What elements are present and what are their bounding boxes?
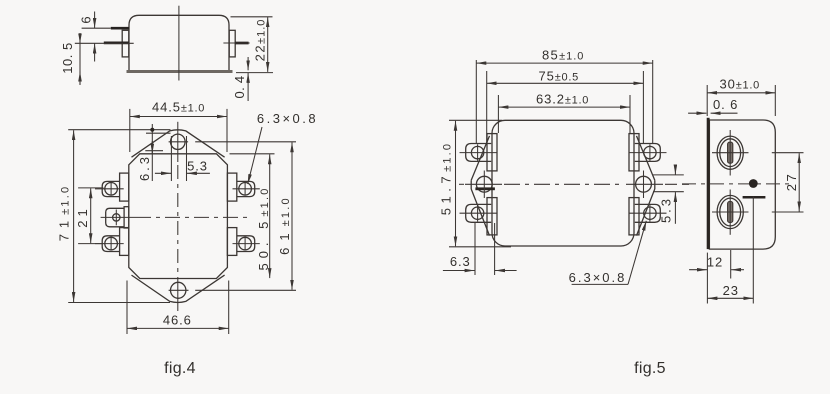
dimension 21 line [90, 188, 92, 243]
dimension 5.3 fig5 ext bottom [653, 191, 684, 193]
svg-text:fig.5: fig.5 [634, 360, 666, 377]
fig4 side pin extension line top [82, 27, 111, 29]
fig4 terminal L2 cross v [115, 210, 117, 226]
dimension 10.5 arrow bottom [79, 72, 81, 85]
fig5 right ear chamfer top [637, 136, 655, 180]
fig5 terminal BR cross h [629, 212, 667, 214]
dimension 51.7 ext top [449, 119, 502, 121]
dimension 63.2 ext right [629, 95, 631, 133]
dimension 6.3 fig5 ext left [474, 223, 476, 275]
fig4 side left terminal plate [122, 30, 129, 57]
dimension 23 ext right [752, 197, 754, 304]
fig4 terminal R1 screw [239, 183, 252, 196]
fig5 horizontal centerline right [665, 183, 689, 185]
dimension 23 line [707, 297, 753, 299]
svg-text:fig.4: fig.4 [164, 360, 196, 377]
fig4 vertical centerline top solid [177, 122, 179, 162]
svg-text:51.7±1.0: 51.7±1.0 [439, 142, 454, 215]
fig5 left ear edge [470, 180, 472, 189]
fig5 terminal BR tab [635, 204, 661, 222]
fig4 terminal L3 screw [105, 237, 118, 250]
fig4 terminal R1 plate [227, 173, 236, 201]
fig5 terminal TR cross h [629, 152, 667, 154]
dimension 51.7 ext bottom [449, 246, 511, 248]
svg-text:75±0.5: 75±0.5 [539, 69, 579, 84]
fig5 terminal TR plate [629, 134, 639, 171]
fig5 terminal BL tab [466, 204, 492, 222]
fig4 side right pin thin line [223, 42, 249, 44]
dimension 23 ext left [706, 253, 708, 304]
fig4 side right terminal plate [229, 30, 235, 57]
fig4 side view base plate [127, 70, 233, 73]
dimension 0.4 arrow bottom [247, 73, 249, 101]
fig4 terminal R1 cross h [233, 188, 260, 190]
fig4 terminal R1 cross v [244, 182, 246, 196]
dimension 27 ext bottom [772, 211, 804, 213]
fig5 terminal BR cross v [649, 205, 651, 222]
dimension 6.3 ext mid [145, 150, 163, 152]
fig4 side right pin [235, 42, 249, 45]
dimension 85 line [476, 62, 652, 64]
fig4 top mounting ear [132, 130, 225, 157]
dimension 63.2 line [498, 106, 630, 108]
end view bottom terminal slot [728, 202, 733, 223]
dimension 44.5 ext right [226, 109, 228, 152]
fig4 terminal L2 cross h [101, 216, 136, 218]
fig4 terminal R3 tab [237, 236, 255, 252]
dimension 27 ext top [772, 152, 804, 154]
dimension 5.3 ext left [170, 136, 172, 181]
dimension 61 ext top [195, 141, 296, 143]
label 6.3x0.8 fig5 leader [628, 221, 646, 285]
svg-text:44.5±1.0: 44.5±1.0 [152, 100, 205, 115]
end view mounting plate edge [707, 118, 710, 249]
svg-text:12: 12 [707, 254, 723, 269]
dimension 30 ext left [706, 85, 708, 116]
fig5 terminal TL cross h [460, 152, 498, 154]
fig4 terminal L3 tab [102, 236, 119, 252]
end view bottom terminal outer [717, 195, 743, 228]
fig4 bottom ear hole [171, 282, 186, 298]
dimension 12 arrow left [689, 269, 707, 271]
svg-text:30±1.0: 30±1.0 [720, 77, 760, 92]
fig4 top ear hole [171, 134, 186, 149]
svg-text:85±1.0: 85±1.0 [542, 47, 584, 62]
fig5 left ear chamfer bottom [471, 189, 489, 236]
dimension 44.5 ext left [129, 109, 131, 152]
dimension 75 line [487, 82, 644, 84]
dimension 71 ext top [68, 129, 170, 131]
fig5 terminal TR tab [635, 144, 661, 162]
dimension 6.3 line [151, 124, 153, 181]
label 6.3x0.8 fig4 leader [248, 127, 262, 184]
svg-text:5.3: 5.3 [659, 196, 674, 223]
fig4 side view body [129, 15, 229, 70]
svg-text:71±1.0: 71±1.0 [57, 185, 72, 242]
dimension 6 arrow top [94, 12, 96, 29]
fig4 terminal L2 tab [106, 208, 124, 227]
end view top terminal cross h [712, 152, 749, 154]
end view ground dot [749, 179, 758, 188]
fig4 terminal L1 cross v [110, 182, 112, 196]
fig5 terminal TL plate [487, 134, 497, 171]
svg-text:23: 23 [723, 283, 739, 298]
end view body [709, 120, 775, 249]
svg-text:22±1.0: 22±1.0 [253, 19, 268, 62]
fig4 terminal R3 screw [239, 237, 252, 250]
fig4 terminal L1 screw [105, 183, 118, 196]
dimension 61 line [291, 142, 293, 289]
dimension 30 ext right [774, 85, 776, 116]
dimension 85 ext left [475, 60, 477, 143]
dimension 5.3 fig5 ext top [653, 174, 684, 176]
fig4 vertical centerline bottom solid [177, 277, 179, 311]
fig5 terminal TR cross v [649, 144, 651, 161]
dimension 21 ext bottom [78, 243, 103, 245]
svg-text:6.3: 6.3 [450, 254, 471, 269]
fig4 side view vertical centerline [178, 6, 180, 81]
dimension 5.3 ext right [186, 136, 188, 181]
fig4 terminal L1 tab [102, 181, 119, 196]
dimension 71 ext bottom [68, 302, 170, 304]
dimension 63.2 ext left [497, 95, 499, 133]
dimension 75 ext right [642, 71, 644, 143]
fig5 terminal BR screw [644, 207, 656, 219]
fig4 terminal R1 tab [237, 181, 255, 196]
dimension 50.5 line [269, 154, 271, 278]
fig4 side top-left pin [111, 27, 129, 30]
fig4 bottom mounting ear [132, 275, 225, 302]
dimension 5.3 arrow left [155, 172, 171, 174]
fig4 terminal L3 plate [120, 228, 129, 256]
fig4 terminal L2 plate [124, 207, 129, 228]
dimension 0.6 arrow left [688, 112, 706, 114]
fig5 body [492, 120, 634, 246]
fig5 left ear cross solid [465, 183, 502, 185]
fig5 terminal BL screw [471, 207, 483, 219]
end view centerline [682, 183, 789, 185]
dimension 0.6 line right [711, 112, 738, 114]
end view ground bar [743, 196, 766, 199]
dimension 75 ext left [486, 71, 488, 143]
dimension 51.7 line [455, 121, 457, 247]
fig5 right ear edge [654, 180, 656, 189]
svg-text:0. 6: 0. 6 [713, 97, 738, 112]
svg-text:21: 21 [75, 205, 90, 227]
svg-text:5.3: 5.3 [187, 158, 208, 173]
dimension 50.5 ext top [230, 153, 275, 155]
dimension 12 arrow right [731, 269, 744, 271]
fig4 terminal L3 cross v [110, 237, 112, 251]
dimension 10.5 line [79, 33, 81, 85]
dimension 44.5 line [130, 116, 227, 118]
svg-text:46.6: 46.6 [163, 313, 192, 328]
dimension 0.4 arrow top [247, 57, 249, 70]
fig4 terminal R3 cross v [244, 237, 246, 251]
fig4 terminal R3 plate [227, 228, 236, 256]
end view top terminal cross v [729, 130, 731, 176]
dimension 46.6 line [127, 327, 229, 329]
fig5 left ear vline [483, 171, 485, 199]
svg-text:10. 5: 10. 5 [60, 42, 75, 73]
dimension 22 bottom extension [236, 72, 273, 74]
fig5 horizontal centerline mid [504, 183, 624, 185]
fig4 side bottom-left pin [104, 42, 129, 45]
end view bottom terminal cross v [729, 190, 731, 235]
svg-text:6.3: 6.3 [137, 154, 152, 181]
fig4 bottom ear hole cross [169, 289, 189, 291]
dimension 22 line [267, 17, 269, 72]
dimension 6.3 arrow [151, 141, 153, 154]
dimension 5.3 fig5 arrow top [674, 167, 676, 175]
svg-text:6.3×0.8: 6.3×0.8 [569, 270, 627, 285]
fig4 terminal R3 cross h [233, 243, 260, 245]
fig5 terminal TL screw [471, 146, 483, 158]
dimension 21 ext top [78, 187, 103, 189]
dimension 46.6 ext right [228, 281, 230, 335]
fig4 horizontal centerline [136, 216, 250, 218]
end view bottom terminal inner [720, 198, 741, 226]
svg-text:0. 4: 0. 4 [232, 76, 247, 99]
end view top terminal outer [717, 136, 743, 169]
end view bottom terminal cross h [712, 211, 749, 213]
dimension 6.3 fig5 ext right [494, 223, 496, 275]
fig5 right ear cross solid [626, 183, 663, 185]
dimension 10.5 arrow top [79, 33, 81, 43]
fig5 right ear vline [643, 171, 645, 199]
svg-text:50. 5±1.0: 50. 5±1.0 [256, 186, 271, 270]
dimension 85 ext right [652, 60, 654, 143]
fig5 terminal TL tab [466, 144, 492, 162]
fig5 right ear hole [636, 176, 652, 192]
fig5 terminal BL plate [487, 198, 497, 235]
fig4 terminal L1 cross h [95, 188, 124, 190]
dimension 61 ext bottom [195, 289, 296, 291]
dimension 12 ext [730, 250, 732, 279]
fig4 side pin extension line bottom [75, 42, 134, 44]
svg-text:61±1.0: 61±1.0 [277, 196, 292, 255]
svg-text:6: 6 [79, 15, 94, 23]
fig4 vertical centerline [177, 165, 179, 274]
end view top terminal slot [728, 142, 733, 163]
dimension 46.6 ext left [126, 281, 128, 335]
fig5 terminal BL cross v [477, 205, 479, 222]
fig5 left ear slot bar [475, 187, 495, 190]
fig5 terminal BL cross h [460, 212, 498, 214]
fig5 terminal TR screw [644, 146, 656, 158]
dimension 22 top extension [231, 16, 273, 18]
fig5 horizontal centerline left [459, 183, 464, 185]
fig4 terminal L2 screw [113, 214, 120, 221]
svg-text:6.3×0.8: 6.3×0.8 [257, 111, 318, 126]
dimension 5.3 fig5 arrow bottom [674, 192, 676, 224]
end view top terminal inner [720, 139, 741, 167]
dimension 6.3 fig5 arrow right [495, 270, 517, 272]
fig5 terminal TL cross v [477, 144, 479, 161]
fig5 left ear hole [476, 176, 492, 192]
fig4 top ear hole cross [169, 141, 189, 143]
dimension 27 line [798, 153, 800, 211]
dimension 5.3 arrow right [187, 172, 210, 174]
fig5 right ear chamfer bottom [637, 189, 655, 236]
fig4 terminal L1 plate [120, 173, 129, 201]
dimension 6.3 fig5 arrow left [443, 270, 475, 272]
dimension 30 line [707, 92, 775, 94]
fig4 front body octagon [129, 154, 228, 279]
dimension 6.3 dot [150, 128, 154, 132]
svg-text:63.2±1.0: 63.2±1.0 [536, 91, 589, 106]
fig5 left ear chamfer top [471, 136, 489, 180]
dimension 71 line [73, 130, 75, 302]
fig5 terminal BR plate [629, 198, 639, 235]
svg-text:27: 27 [784, 172, 799, 191]
fig4 terminal L3 cross h [95, 243, 124, 245]
dimension 6 arrow bottom [94, 44, 96, 62]
fig4 top ear lip line [146, 132, 171, 134]
label 6.3x0.8 fig5 underline [572, 283, 628, 285]
